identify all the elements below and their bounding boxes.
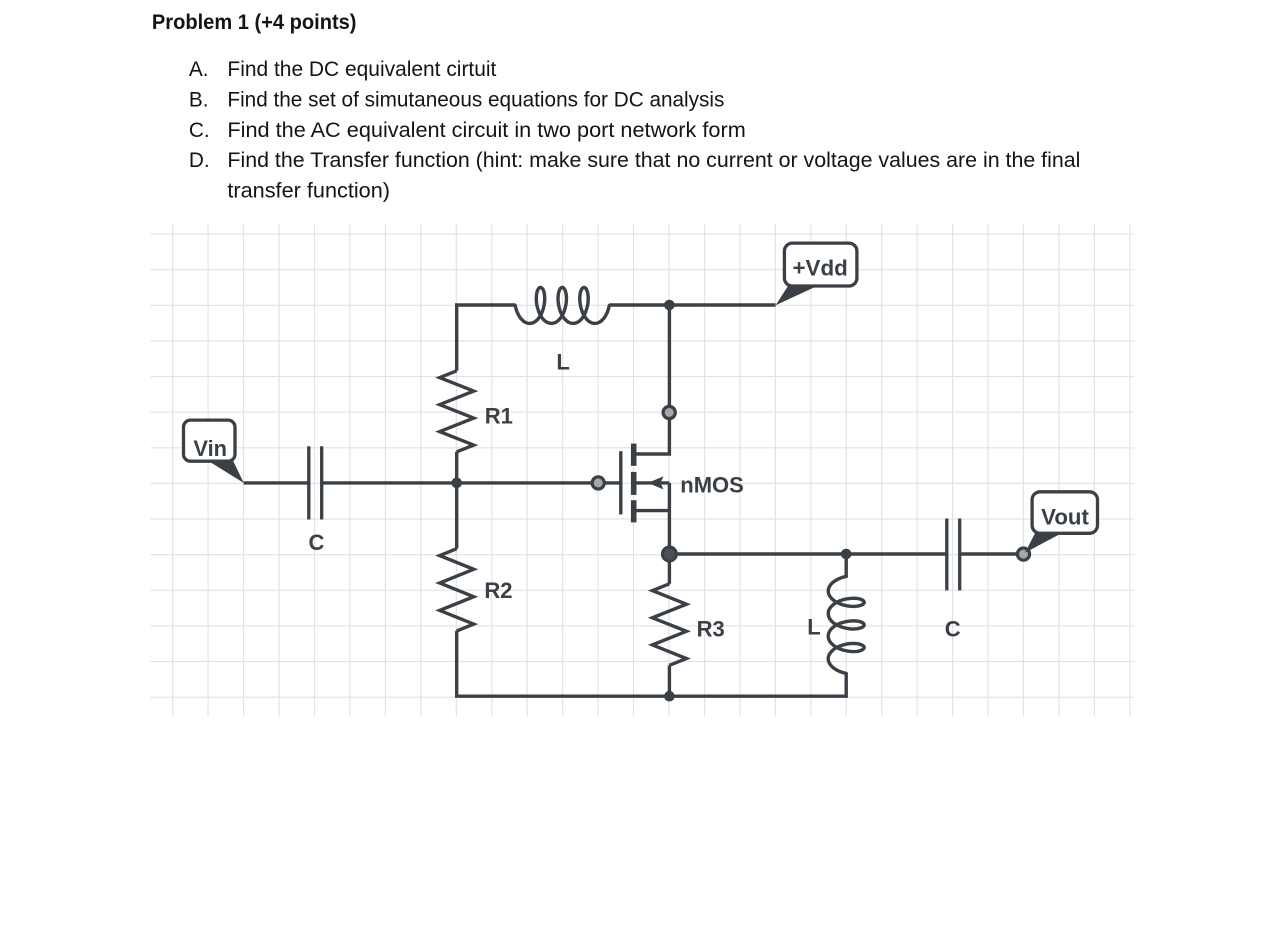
Vin callout box [184, 420, 236, 461]
source tab [634, 509, 670, 512]
resistor R2 [440, 483, 474, 631]
svg-text:C: C [309, 530, 325, 555]
wire bottom rail with R2 and L bottom leads [457, 631, 847, 696]
junction node at top rail / drain [664, 300, 675, 311]
wire capacitor C to Vout [960, 552, 1024, 555]
wire capacitor C to nMOS gate [322, 481, 621, 484]
Vin callout tail [206, 460, 244, 484]
resistor R1 [440, 371, 474, 483]
svg-text:C: C [945, 617, 961, 642]
junction node at bottom rail / R3 [664, 691, 675, 702]
svg-text:C.: C. [189, 119, 210, 142]
svg-text:Vin: Vin [193, 436, 227, 461]
svg-text:L: L [807, 615, 820, 640]
nMOS body arrow [648, 476, 664, 489]
grid background [151, 224, 1134, 716]
nMOS transistor Q1 [621, 444, 670, 523]
capacitor C (output) [947, 519, 960, 591]
svg-text:Vout: Vout [1041, 504, 1089, 529]
channel segment middle [631, 472, 637, 495]
gate bar [619, 451, 622, 514]
node at nMOS source / output [663, 547, 677, 561]
wire output node to capacitor C [669, 552, 946, 555]
port dot on drain wire [663, 406, 675, 418]
svg-text:Find the Transfer function (hi: Find the Transfer function (hint: make s… [227, 149, 1080, 172]
wire source vertical [668, 483, 671, 554]
wire R1 top lead and top rail left corner [457, 305, 516, 371]
inductor L (output, vertical) [828, 554, 864, 673]
svg-text:R3: R3 [697, 616, 725, 641]
wire Vin to capacitor C [244, 481, 309, 484]
+Vdd callout box [784, 243, 857, 286]
Vout callout box [1032, 492, 1097, 534]
port dot on gate wire [592, 477, 604, 489]
svg-text:L: L [556, 350, 569, 375]
resistor R3 [652, 554, 686, 696]
capacitor C (input) [309, 446, 322, 519]
inductor L (top) [515, 288, 609, 324]
svg-text:transfer function): transfer function) [227, 180, 390, 203]
svg-text:A.: A. [189, 58, 209, 81]
svg-text:Find the AC equivalent circuit: Find the AC equivalent circuit in two po… [227, 119, 745, 142]
svg-text:D.: D. [189, 149, 210, 172]
body line [636, 481, 669, 484]
wire drain vertical [634, 305, 670, 454]
svg-text:B.: B. [189, 88, 209, 111]
wire top rail right segment to +Vdd [609, 303, 775, 306]
svg-text:+Vdd: +Vdd [793, 256, 848, 281]
port dot at Vout [1017, 548, 1029, 560]
junction node at R1/R2/gate [451, 478, 462, 489]
svg-text:R2: R2 [484, 578, 512, 603]
channel segment bottom [631, 500, 637, 522]
svg-text:nMOS: nMOS [680, 472, 744, 497]
junction node at output / L [841, 549, 852, 560]
svg-text:R1: R1 [485, 403, 513, 428]
+Vdd callout tail [776, 284, 818, 306]
channel segment top [631, 444, 637, 466]
svg-text:Find the set of simutaneous eq: Find the set of simutaneous equations fo… [227, 88, 724, 111]
svg-text:Problem 1 (+4 points): Problem 1 (+4 points) [152, 10, 357, 34]
svg-text:Find the DC equivalent cirtuit: Find the DC equivalent cirtuit [227, 58, 496, 81]
Vout callout tail [1025, 531, 1062, 552]
